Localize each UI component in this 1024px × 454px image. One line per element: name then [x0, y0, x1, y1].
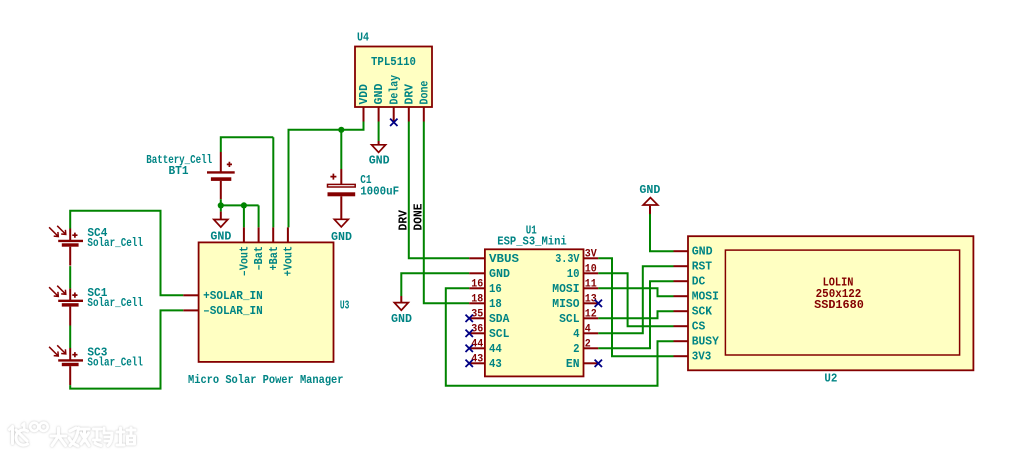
wire U1 pin4 to U2 RST — [598, 266, 673, 333]
U2 pin stub MOSI — [674, 295, 689, 297]
svg-text:–Bat: –Bat — [252, 246, 266, 271]
BT1 bottom lead — [220, 181, 222, 199]
wire solar chain top to U3 +SOLAR_IN — [70, 211, 183, 296]
plus sign SC3 polarity — [72, 352, 77, 357]
svg-text:CS: CS — [692, 320, 706, 334]
svg-text:+Vout: +Vout — [282, 246, 296, 276]
svg-text:GND: GND — [369, 154, 390, 168]
svg-text:GND: GND — [372, 84, 386, 105]
svg-text:1000uF: 1000uF — [360, 185, 399, 199]
solar cell SC1 light arrows — [49, 287, 58, 296]
solar cell SC4 plates — [58, 240, 83, 242]
wire U1 pin16 to U2 BUSY — [446, 288, 674, 386]
U2 pin stub CS — [674, 325, 689, 327]
svg-text:GND: GND — [489, 267, 510, 281]
U1 left pin stub 18 — [469, 302, 485, 304]
U4 pin stub DRV — [408, 107, 410, 122]
U1 left pin stub SDA — [469, 317, 485, 319]
U4 pin stub Delay — [393, 107, 395, 122]
U4 ground lead — [378, 141, 380, 145]
plus sign SC4 polarity — [72, 233, 77, 238]
U2 pin stub RST — [674, 265, 689, 267]
svg-text:Done: Done — [417, 81, 431, 105]
svg-text:SDA: SDA — [489, 312, 510, 326]
svg-text:16: 16 — [471, 279, 483, 291]
svg-text:ESP_S3_Mini: ESP_S3_Mini — [497, 235, 567, 249]
U2 pin stub SCK — [674, 310, 689, 312]
svg-text:43: 43 — [471, 354, 483, 366]
svg-text:3V: 3V — [585, 249, 597, 261]
capacitor C1 top plate — [328, 184, 356, 187]
svg-text:+SOLAR_IN: +SOLAR_IN — [203, 289, 263, 303]
svg-text:44: 44 — [489, 342, 502, 356]
svg-text:BUSY: BUSY — [692, 335, 720, 349]
svg-text:TPL5110: TPL5110 — [371, 55, 416, 69]
IC U1 ESP_S3_Mini body — [485, 249, 584, 376]
capacitor C1 bottom plate — [328, 192, 356, 196]
plus sign BT1 polarity — [227, 162, 232, 167]
ground lead top right — [649, 206, 651, 214]
wire U4 VDD to U3 +Vout — [289, 122, 364, 228]
no-connect U1 SCL — [466, 330, 473, 337]
wire net DRV: U4 DRV to U1 VBUS — [409, 122, 469, 259]
ground symbol GND below U1 — [394, 303, 408, 311]
solar cell SC4 light arrows — [49, 227, 58, 236]
solar cell SC3 leads — [69, 348, 71, 360]
U2 display screen rectangle — [725, 250, 959, 355]
wire U1 MOSI to U2 MOSI — [598, 288, 673, 296]
U1 left pin stub GND — [469, 272, 485, 274]
battery BT1 top plate — [207, 171, 235, 173]
ground symbol GND below U4 — [372, 145, 386, 153]
svg-text:–Vout: –Vout — [238, 246, 252, 276]
svg-text:MOSI: MOSI — [552, 282, 579, 296]
plus sign SC1 polarity — [72, 293, 77, 298]
svg-text:Micro Solar Power Manager: Micro Solar Power Manager — [188, 373, 344, 387]
svg-text:Delay: Delay — [387, 75, 401, 105]
U1 right pin stub SCL — [584, 317, 599, 319]
junction BT1 minus node A — [218, 202, 224, 208]
U1 left pin stub SCL — [469, 332, 485, 334]
svg-text:MISO: MISO — [552, 297, 579, 311]
svg-text:35: 35 — [471, 309, 483, 321]
svg-text:SCL: SCL — [489, 327, 509, 341]
wire net DONE: U4 Done to U1 pin 18 — [424, 122, 469, 304]
U1 ground lead — [400, 296, 402, 303]
C1 bottom lead — [340, 196, 342, 219]
U1 left pin stub 44 — [469, 347, 485, 349]
U3 top pin stub -Bat — [258, 227, 260, 242]
svg-text:18: 18 — [471, 294, 483, 306]
solar cell SC1 leads — [69, 288, 71, 300]
svg-text:–SOLAR_IN: –SOLAR_IN — [203, 304, 263, 318]
svg-text:GND: GND — [639, 183, 660, 197]
svg-text:+Bat: +Bat — [267, 246, 281, 271]
wire U4 GND pin to ground — [378, 122, 380, 142]
wire U1 GND to ground — [401, 273, 469, 296]
svg-text:2: 2 — [573, 342, 579, 356]
svg-text:DC: DC — [692, 275, 706, 289]
svg-text:SCK: SCK — [692, 305, 713, 319]
solar cell SC3 light arrows — [49, 347, 58, 356]
ground symbol GND below C1 — [334, 219, 348, 227]
svg-text:GND: GND — [692, 245, 713, 259]
svg-text:DRV: DRV — [396, 209, 410, 230]
solar cell SC1 plates — [58, 300, 83, 302]
svg-text:U2: U2 — [824, 372, 837, 386]
U3 top pin stub +Vout — [287, 227, 289, 242]
solar cell SC4 leads — [69, 229, 71, 241]
svg-text:36: 36 — [471, 324, 483, 336]
svg-text:MOSI: MOSI — [692, 290, 719, 304]
svg-text:U4: U4 — [357, 30, 369, 44]
svg-text:SCL: SCL — [559, 312, 579, 326]
BT1 top lead — [220, 152, 222, 172]
U4 pin stub VDD — [363, 107, 365, 122]
plus sign C1 polarity — [330, 174, 336, 180]
U2 pin stub DC — [674, 280, 689, 282]
wire U1 pin10 to U2 CS — [598, 273, 673, 326]
ground symbol GND top right (flipped) — [643, 198, 658, 205]
battery BT1 bottom plate — [211, 177, 231, 181]
U1 right pin stub MISO — [584, 302, 599, 304]
wire BT1 node to ground — [220, 205, 222, 211]
U2 pin stub GND — [674, 250, 689, 252]
U1 right pin stub 4 — [584, 332, 599, 334]
svg-text:SSD1680: SSD1680 — [814, 298, 864, 312]
svg-text:18: 18 — [489, 297, 502, 311]
U1 right pin stub 10 — [584, 272, 599, 274]
no-connect U1 44 — [466, 345, 473, 352]
svg-text:GND: GND — [391, 312, 412, 326]
U1 right pin stub 2 — [584, 347, 599, 349]
wire VDD node to C1 — [340, 130, 342, 169]
svg-text:BT1: BT1 — [169, 164, 189, 178]
U1 left pin stub VBUS — [469, 257, 485, 259]
svg-text:43: 43 — [489, 357, 502, 371]
svg-text:U3: U3 — [340, 299, 350, 313]
U3 pin stub +SOLAR_IN — [183, 294, 198, 296]
svg-text:Solar_Cell: Solar_Cell — [87, 236, 142, 250]
svg-text:4: 4 — [585, 324, 591, 336]
no-connect U1 43 — [466, 360, 473, 367]
wire U1 pin2 to U2 DC — [598, 281, 673, 348]
no-connect U1 SDA — [466, 315, 473, 322]
svg-text:DONE: DONE — [411, 204, 425, 231]
svg-text:16: 16 — [489, 282, 502, 296]
wire solar chain bottom to U3 -SOLAR_IN — [70, 310, 183, 388]
no-connect U1 EN — [595, 360, 602, 367]
wire BT1 plus to U3 +Bat — [221, 137, 273, 227]
U3 top pin stub +Bat — [272, 227, 274, 242]
ground symbol GND below BT1 — [214, 220, 228, 228]
C1 top lead — [340, 169, 342, 184]
svg-text:10: 10 — [567, 267, 580, 281]
wire BT1 minus to U3 -Vout and -Bat — [221, 199, 259, 227]
U1 left pin stub 16 — [469, 287, 485, 289]
wire U1 SCL to U2 SCK — [598, 311, 673, 318]
U1 right pin stub MOSI — [584, 287, 599, 289]
U2 pin stub 3V3 — [674, 355, 689, 357]
svg-text:2: 2 — [585, 339, 591, 351]
wire ground to U2 GND — [650, 214, 674, 251]
wire U1 3.3V to U2 3V3 — [598, 258, 673, 356]
svg-text:12: 12 — [585, 309, 597, 321]
junction VDD / C1 node — [338, 127, 344, 133]
svg-text:RST: RST — [692, 260, 712, 274]
IC U2 LOLIN display body — [688, 236, 973, 370]
svg-text:44: 44 — [471, 339, 483, 351]
svg-text:EN: EN — [566, 357, 580, 371]
U2 pin stub BUSY — [674, 340, 689, 342]
no-connect U1 MISO — [595, 300, 602, 307]
svg-text:Solar_Cell: Solar_Cell — [87, 355, 142, 369]
solar cell SC3 plates — [58, 359, 83, 361]
U3 top pin stub -Vout — [243, 227, 245, 242]
wire wire between SC1 and SC3 — [69, 326, 71, 349]
svg-text:4: 4 — [573, 327, 579, 341]
svg-text:VDD: VDD — [357, 84, 371, 104]
U1 left pin stub 43 — [469, 362, 485, 364]
svg-text:10: 10 — [585, 264, 597, 276]
wire wire between SC4 and SC1 — [69, 266, 71, 288]
IC U4 TPL5110 body — [355, 47, 432, 108]
svg-text:DRV: DRV — [402, 83, 416, 104]
U3 pin stub -SOLAR_IN — [183, 309, 198, 311]
svg-text:3V3: 3V3 — [692, 350, 712, 364]
svg-text:3.3V: 3.3V — [555, 252, 580, 266]
U1 right pin stub EN — [584, 362, 599, 364]
U4 pin stub GND — [378, 107, 380, 122]
BT1 ground lead — [220, 212, 222, 220]
watermark logo (decorative, faint) — [10, 423, 136, 446]
no-connect U4 Delay pin — [390, 119, 397, 126]
svg-text:VBUS: VBUS — [489, 252, 519, 266]
U1 right pin stub 3.3V — [584, 257, 599, 259]
U4 pin stub Done — [423, 107, 425, 122]
junction BT1 minus node B — [241, 202, 247, 208]
svg-text:11: 11 — [585, 279, 597, 291]
svg-text:Solar_Cell: Solar_Cell — [87, 296, 142, 310]
IC U3 Micro Solar Power Manager body — [199, 242, 334, 362]
